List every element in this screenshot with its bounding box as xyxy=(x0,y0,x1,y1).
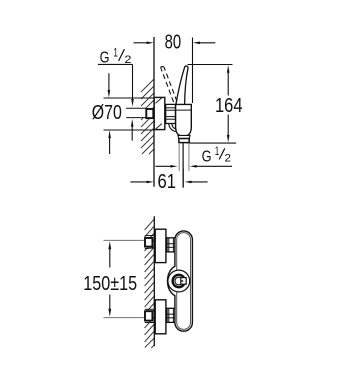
outlet elbow lines under nut xyxy=(169,124,177,132)
dimension Ø70: bottom arrow (points up) xyxy=(108,130,111,154)
svg-text:80: 80 xyxy=(165,32,182,54)
knob button bar xyxy=(181,280,183,282)
label G 1/2 (top-left) xyxy=(100,45,132,66)
svg-text:Ø70: Ø70 xyxy=(92,102,122,124)
dimension 80: right extension line xyxy=(192,38,194,104)
G 1/2 lower arrow (points up at pipe) xyxy=(131,119,134,141)
dimension 61: right arrow xyxy=(185,181,208,184)
dimension 61: left arrow at wall xyxy=(130,181,153,184)
dimension 164: top extension line xyxy=(187,64,232,66)
bottom union escutcheon xyxy=(155,300,166,334)
svg-text:164: 164 xyxy=(215,95,243,117)
wall hatching (bottom view) xyxy=(145,219,155,348)
dimension 150±15: extension lines xyxy=(104,240,144,317)
label G 1/2 (bottom, at hose) xyxy=(202,144,232,165)
dimension 80: right arrow xyxy=(193,42,215,45)
connector nut (top view, side) xyxy=(166,104,176,123)
shower hose nut xyxy=(179,139,189,143)
G 1/2 fraction slash (top-left) xyxy=(119,49,125,61)
top union escutcheon xyxy=(155,229,166,262)
G 1/2 fraction slash (bottom) xyxy=(219,148,225,159)
body capsule (front view) xyxy=(168,231,193,331)
body capsule inner line xyxy=(177,233,191,330)
svg-text:1: 1 xyxy=(215,144,220,158)
shower hose lines xyxy=(179,143,189,188)
dimension 61: right extension tick xyxy=(182,169,184,188)
dimension 164: vertical line + arrows xyxy=(227,65,230,142)
dimension Ø70: top extension line xyxy=(104,97,155,99)
shower hose cone xyxy=(178,135,190,138)
top union nut xyxy=(145,236,155,249)
dimension Ø70: bottom extension line xyxy=(104,129,155,131)
svg-text:G: G xyxy=(202,148,212,165)
supply pipe lines (left of wall) xyxy=(126,108,145,117)
wall hatching (top view) xyxy=(141,79,154,154)
svg-text:150±15: 150±15 xyxy=(83,273,137,295)
G 1/2 underline + leader (top-left) xyxy=(98,64,134,106)
dimension 164: bottom extension line xyxy=(188,142,237,144)
flange section hatch ticks xyxy=(156,98,162,130)
top connector xyxy=(167,238,175,252)
dimension 80: left arrow xyxy=(134,42,154,45)
svg-text:61: 61 xyxy=(158,171,177,193)
knob inner circle xyxy=(175,277,183,285)
wall line (top view) xyxy=(153,37,155,187)
wall line (bottom view) xyxy=(153,216,155,346)
dimension Ø70: top arrow (points down) xyxy=(108,73,111,97)
lever handle (solid) xyxy=(176,66,188,104)
G 1/2 hose arrows xyxy=(155,165,232,168)
S-union fitting square (through wall) xyxy=(146,109,153,118)
mixer body (side view) xyxy=(176,104,192,136)
knob ring xyxy=(173,275,185,287)
svg-text:2: 2 xyxy=(225,152,232,164)
knob outer circle xyxy=(168,270,190,292)
dimension 150±15: vertical line + arrows xyxy=(108,241,111,317)
escutcheon flange (side view on wall) xyxy=(154,97,165,129)
svg-text:1: 1 xyxy=(113,45,118,59)
bottom union nut xyxy=(145,309,155,322)
bottom connector xyxy=(167,308,175,322)
body top collar line xyxy=(176,109,192,111)
lever handle alternate position (dashed) xyxy=(161,67,177,103)
knob button rect xyxy=(181,278,186,285)
